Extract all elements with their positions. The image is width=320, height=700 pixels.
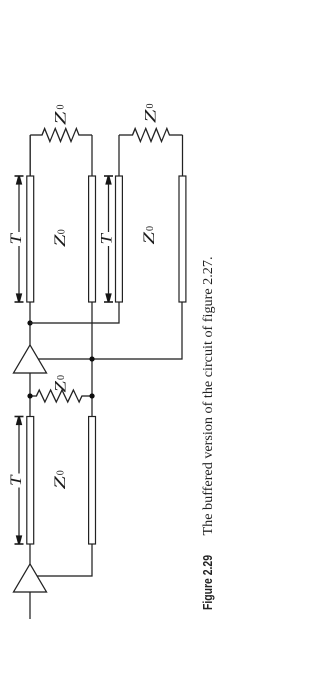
wire U1 output bbox=[29, 544, 31, 564]
transmission line TL3 bottom conductor bbox=[179, 176, 186, 302]
buffer U1 bbox=[14, 564, 47, 592]
svg-text:0: 0 bbox=[56, 375, 67, 380]
dimension arrow right TL3 bbox=[105, 176, 111, 184]
svg-text:The buffered version of the ci: The buffered version of the circuit of f… bbox=[201, 257, 216, 536]
node dot R1 top bbox=[27, 393, 32, 398]
dimension tick left TL1 bbox=[15, 543, 24, 545]
svg-text:0: 0 bbox=[56, 470, 67, 475]
node dot U2 tap bbox=[89, 356, 94, 361]
resistor R1 Z0 bbox=[30, 390, 92, 402]
svg-text:0: 0 bbox=[56, 105, 67, 110]
svg-text:Z: Z bbox=[143, 109, 160, 123]
svg-text:T: T bbox=[8, 474, 25, 486]
wire input bbox=[29, 592, 31, 619]
svg-text:T: T bbox=[8, 232, 25, 244]
transmission line TL1 bottom conductor bbox=[89, 417, 96, 545]
buffer U2 bbox=[14, 345, 47, 373]
dimension arrow left TL1 bbox=[16, 535, 22, 543]
svg-text:Z: Z bbox=[52, 475, 69, 489]
dimension arrow left TL3 bbox=[105, 293, 111, 301]
wire U2 return tap bbox=[38, 302, 182, 359]
dimension arrow right TL2 bbox=[16, 176, 22, 184]
node dot output split bbox=[27, 320, 32, 325]
transmission line TL2 top conductor bbox=[27, 176, 34, 302]
dimension tick right TL2 bbox=[15, 175, 24, 177]
svg-text:Z: Z bbox=[53, 111, 70, 125]
wire U2 output bbox=[29, 302, 31, 345]
resistor R2 Z0 termination TL2 bbox=[30, 129, 92, 177]
svg-text:0: 0 bbox=[57, 229, 68, 234]
dimension tick right TL1 bbox=[15, 416, 24, 418]
svg-text:Figure 2.29: Figure 2.29 bbox=[200, 555, 215, 610]
node dot R1 bottom bbox=[89, 393, 94, 398]
dimension tick left TL3 bbox=[104, 301, 113, 303]
dimension line TL1 bbox=[18, 425, 20, 537]
transmission line TL3 top conductor bbox=[116, 176, 123, 302]
svg-text:T: T bbox=[99, 232, 116, 244]
dimension arrow left TL2 bbox=[16, 293, 22, 301]
transmission line TL1 top conductor bbox=[27, 417, 34, 545]
dimension tick left TL2 bbox=[15, 301, 24, 303]
wire return rail bbox=[91, 302, 93, 417]
svg-text:Z: Z bbox=[53, 381, 70, 393]
wire TL1 to U2 bbox=[29, 373, 31, 417]
transmission line TL2 bottom conductor bbox=[89, 176, 96, 302]
dimension line TL2 bbox=[18, 184, 20, 294]
svg-text:0: 0 bbox=[145, 226, 156, 231]
dimension arrow right TL1 bbox=[16, 417, 22, 425]
wire drop to TL3 bbox=[30, 302, 119, 323]
dimension tick right TL3 bbox=[104, 175, 113, 177]
wire U1 return tap bbox=[37, 544, 92, 576]
svg-text:Z: Z bbox=[52, 234, 69, 247]
svg-text:Z: Z bbox=[141, 231, 158, 244]
dimension line TL3 bbox=[108, 184, 110, 294]
resistor R3 Z0 termination TL3 bbox=[119, 129, 183, 177]
svg-text:0: 0 bbox=[145, 104, 156, 109]
